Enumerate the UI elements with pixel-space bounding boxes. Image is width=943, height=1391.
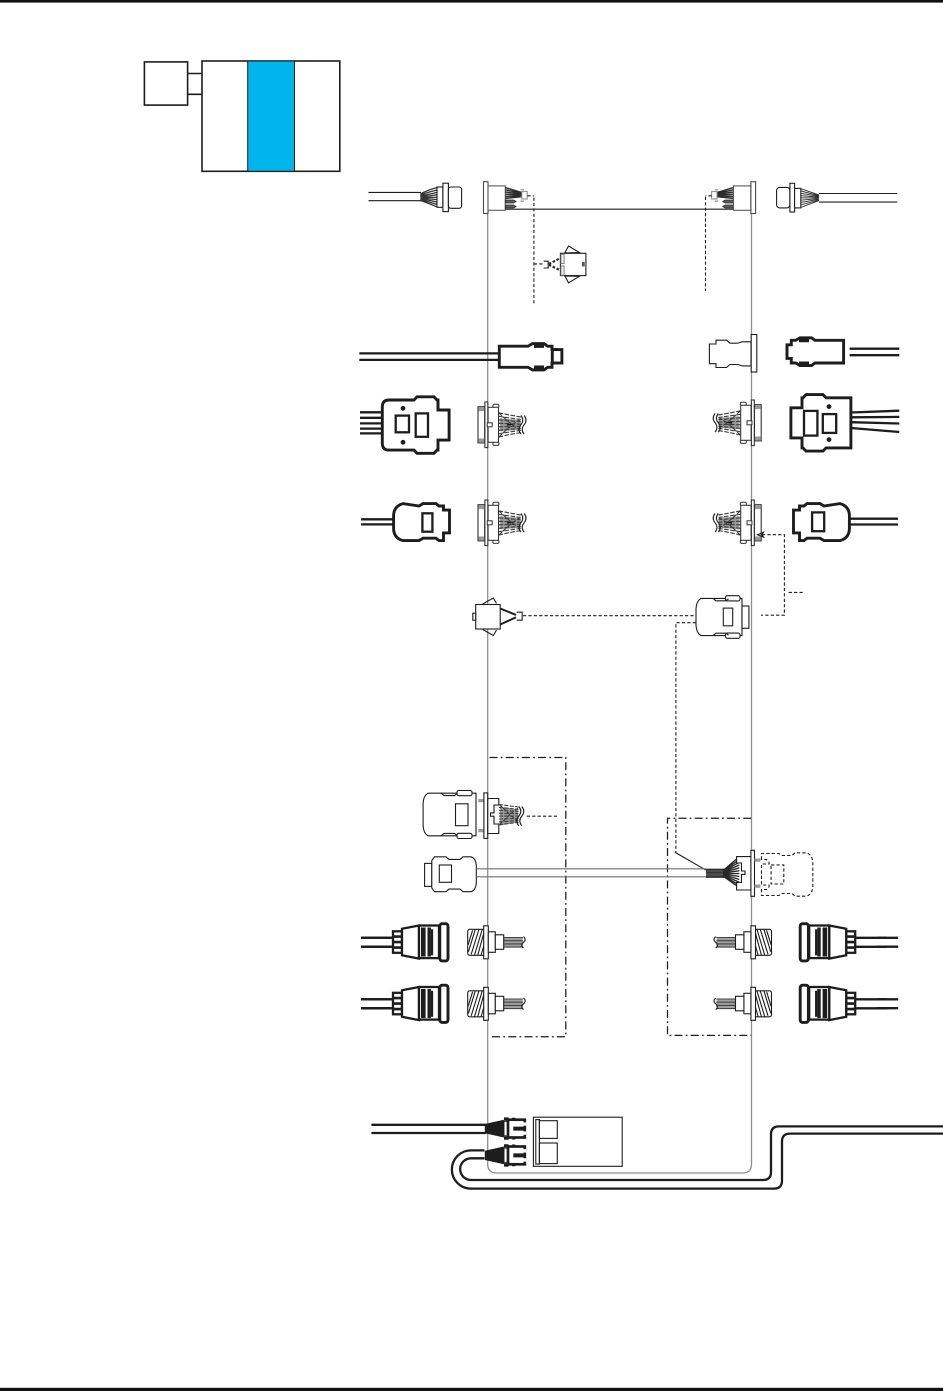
row3 left connector pin dots: [401, 406, 406, 411]
row3 left rail plug: [478, 402, 526, 448]
row3 right connector body: [791, 395, 851, 452]
row5 left wires: [500, 609, 516, 625]
row9 left braid connector: [468, 987, 526, 1020]
connector X1 wire fan: [420, 188, 437, 207]
connector X1 flange: [443, 183, 449, 211]
connector X5 body: [560, 253, 586, 275]
row4 left rail plug: [478, 500, 526, 546]
row5 left latch bottom: [483, 630, 497, 636]
connector X2 flange: [484, 182, 489, 214]
connector X4 flange: [790, 183, 795, 212]
row3 right cables: [851, 411, 899, 432]
row3 right connector slot A: [804, 411, 817, 436]
row4 right plug body: [794, 504, 850, 541]
bottom upper cable: [371, 1125, 486, 1133]
row2 right socket flange: [751, 335, 757, 373]
row8 right round connector: [800, 924, 887, 961]
connector X4 nose: [795, 188, 801, 208]
row5 left bracket: [517, 612, 523, 620]
bottom upper connector: [485, 1117, 526, 1139]
row4 left cable: [361, 519, 394, 524]
row9 right braid connector: [714, 987, 772, 1020]
row5 right connector nose: [742, 606, 749, 628]
row8 right cable ext: [877, 938, 898, 947]
row7 phantom connector: [762, 853, 813, 896]
page border frame: [0, 0, 943, 3]
connector X2 prongs: [505, 200, 516, 208]
row8 left braid connector: [468, 926, 526, 959]
fusebox cell B: [539, 1143, 557, 1164]
connector X1 collar: [437, 187, 443, 207]
row3 right connector pin dots: [827, 404, 832, 409]
row4 callout arrow: [758, 532, 764, 537]
callout dashed drop from X2: [533, 198, 535, 306]
row8 left round connector: [361, 924, 448, 961]
row7 dark bundle: [706, 869, 724, 877]
connector X5 bracket: [544, 261, 549, 268]
logo small box: [144, 62, 187, 105]
connector X4 cable: [819, 194, 897, 203]
bottom loop cable outer: [452, 1134, 943, 1189]
leader diagonal to row7 fan: [675, 852, 706, 870]
connector X3 flange: [751, 182, 756, 214]
connector X5 right tab: [582, 262, 585, 267]
row5 right connector slot: [723, 608, 732, 626]
row5 right connector body: [696, 598, 742, 635]
row9 left round connector: [361, 985, 448, 1022]
row2 left plug ticks: [534, 345, 544, 369]
connector X5 wires: [549, 258, 561, 271]
row8 left cable: [361, 938, 394, 947]
fusebox divider: [536, 1120, 540, 1165]
logo main box: [202, 61, 340, 171]
row5 left latch top: [483, 598, 497, 604]
callout dashed branch to X5: [534, 263, 545, 265]
row3 left wire stubs: [360, 412, 382, 433]
row5 dash-dot feeder: [676, 623, 696, 852]
row2 left cable: [359, 353, 500, 360]
row4 callout dashed path: [761, 535, 784, 616]
row5 left connector body: [476, 605, 501, 630]
row6 gray tabs: [478, 799, 483, 832]
row6 flange: [484, 793, 488, 839]
row4 right cable: [850, 519, 898, 525]
row7 connector body: [432, 857, 477, 892]
row3 right connector slot B: [823, 414, 836, 433]
row6 wire bundle: [500, 807, 518, 826]
row2 right cable: [850, 349, 900, 356]
row4 left plug body: [394, 504, 450, 541]
row6 connector body: [423, 793, 476, 836]
row7 wire fan: [723, 857, 739, 888]
row3 left connector slot A: [396, 416, 409, 433]
connector X1 cable: [369, 192, 422, 200]
row2 left plug body: [499, 344, 556, 370]
row4 right plug slot: [812, 512, 824, 531]
connector X5 latch top: [565, 246, 580, 253]
row3 left connector slot B: [416, 413, 428, 436]
harness trunk rail outline: [488, 214, 752, 1174]
row2 right plug body: [787, 338, 844, 366]
logo link lines: [188, 74, 202, 95]
callout dashed drop from X3: [705, 197, 707, 291]
row6 bundle squiggle: [517, 807, 524, 826]
row9 right cable ext: [877, 999, 898, 1008]
connector X4 body: [777, 187, 790, 208]
connector X5 left slots: [561, 254, 564, 263]
row4 right rail plug: [713, 500, 761, 546]
connector X1 body: [448, 187, 461, 208]
row7 rail bracket: [737, 857, 751, 890]
right dash-dot zone box: [668, 818, 752, 1035]
row8 right braid connector: [714, 926, 772, 959]
connector X3 body: [734, 186, 751, 210]
row3 left connector body: [382, 397, 449, 454]
row7 phantom slot: [771, 865, 784, 884]
connector X2 body: [488, 186, 505, 210]
row7 connector nose: [425, 863, 432, 886]
row2 right plug ticks: [799, 339, 809, 365]
row5 dashed wire: [523, 615, 696, 617]
row6 dashed stub: [527, 815, 559, 817]
fusebox outline: [533, 1117, 622, 1166]
row9 right round connector: [800, 985, 887, 1022]
row6 rail bracket: [488, 799, 499, 834]
row2 left plug nose: [552, 350, 562, 363]
row5 left connector left tab: [473, 613, 476, 620]
row6 connector slot: [456, 804, 469, 826]
connector X4 wire fan: [801, 189, 819, 208]
wire X2-X3: [505, 208, 734, 210]
connector X5 latch bottom: [565, 276, 580, 283]
connector X3 wire fan: [717, 188, 734, 199]
row7 gray tabs: [755, 859, 761, 888]
row7 connector slot: [439, 865, 451, 882]
connector X2 wire fan: [505, 188, 522, 199]
bottom lower connector: [485, 1144, 526, 1166]
row9 left cable: [361, 999, 394, 1008]
bottom loop cable inner: [460, 1126, 943, 1180]
fusebox cell A: [539, 1121, 557, 1139]
row2 right socket body: [709, 340, 751, 367]
left dash-dot zone box: [490, 758, 566, 1037]
logo cyan stripe: [248, 61, 295, 171]
row4 left plug slot: [422, 513, 432, 531]
row3 right rail plug: [713, 400, 761, 446]
row7 flange: [751, 850, 755, 896]
connector X2 pigtail tab: [521, 190, 525, 202]
callout dashed link X2: [527, 195, 534, 197]
row4 callout dashed stub: [789, 591, 803, 593]
row7 long wire pair: [476, 869, 706, 877]
